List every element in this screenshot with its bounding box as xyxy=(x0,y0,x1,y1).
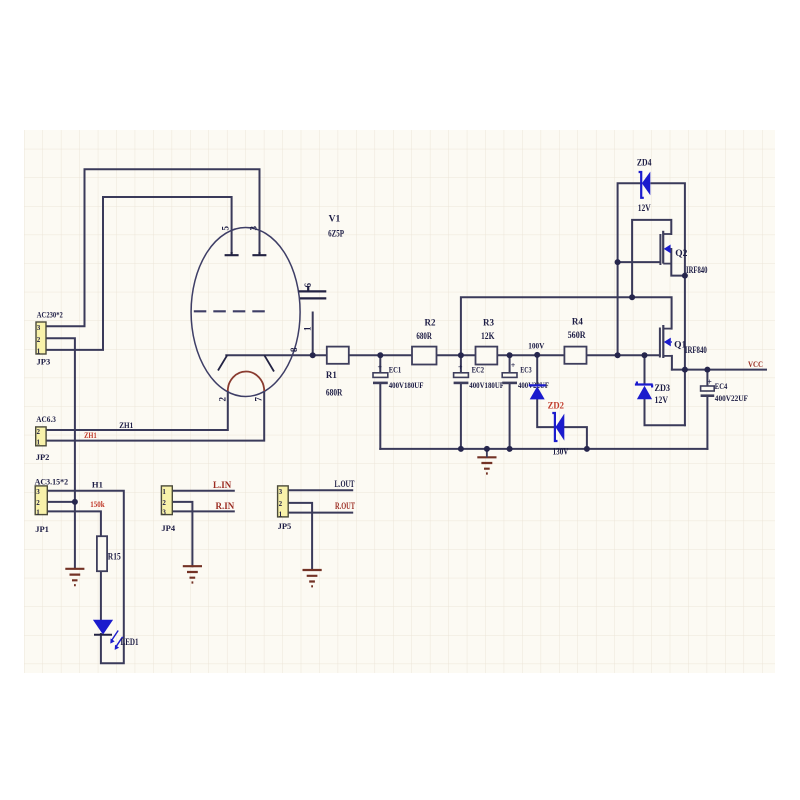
wire JP2 pin2 to tube pin2 (net ZH1) xyxy=(46,392,228,430)
node return rail ZD2 xyxy=(584,446,590,452)
svg-text:ZD3: ZD3 xyxy=(655,383,671,393)
zener ZD2 (horizontal, cathode left) xyxy=(552,413,557,441)
wire JP2 pin1 to tube pin7 (net ZH1) xyxy=(46,392,264,441)
wire JP3 pin3 to tube pin5 (inner loop) xyxy=(46,197,232,350)
wire ZD3 bottom to VCC vertical xyxy=(645,399,685,425)
node VCC / right vertical xyxy=(682,367,688,373)
schematic sheet with grid xyxy=(24,130,775,673)
ground under JP4 xyxy=(183,566,202,582)
wire JP1 pin3 H1 loop to LED cathode return xyxy=(47,491,124,664)
transistor Q1 channel bar xyxy=(662,325,664,358)
tube V1 6Z5P envelope ellipse xyxy=(191,228,300,397)
svg-text:12V: 12V xyxy=(655,395,669,405)
tube cathode heater arc xyxy=(228,371,264,391)
svg-text:1: 1 xyxy=(36,508,40,516)
svg-text:6Z5P: 6Z5P xyxy=(328,229,344,239)
svg-text:12V: 12V xyxy=(638,203,651,213)
svg-text:R3: R3 xyxy=(483,318,494,328)
resistor R1 xyxy=(327,347,349,364)
svg-text:3: 3 xyxy=(248,226,258,231)
wire JP5 pin1 R.OUT xyxy=(288,512,352,514)
node return rail EC3 xyxy=(507,446,513,452)
wire JP3 pin1 to tube pin3 (upper loop) xyxy=(46,169,260,326)
svg-text:EC3: EC3 xyxy=(520,365,532,375)
wire JP1 pin2 to ground stem xyxy=(47,501,75,503)
wire R3 to R4 xyxy=(497,354,564,356)
wire JP4 pin2 to ground xyxy=(172,502,192,566)
wire JP1 pin1 to R15 top xyxy=(47,511,101,536)
svg-text:JP1: JP1 xyxy=(35,524,49,534)
svg-text:3: 3 xyxy=(162,508,166,516)
wire bottom return rail xyxy=(380,448,707,450)
ground under JP3/JP1 chain xyxy=(65,569,84,585)
svg-text:R1: R1 xyxy=(326,370,337,380)
svg-text:+: + xyxy=(378,363,383,372)
svg-text:ZH1: ZH1 xyxy=(119,420,133,430)
svg-text:JP4: JP4 xyxy=(161,523,175,533)
svg-text:+: + xyxy=(458,363,463,372)
transistor Q2 drain stub xyxy=(663,233,671,235)
wire JP4 pin3 R.IN xyxy=(172,510,234,512)
svg-text:VCC: VCC xyxy=(748,359,763,369)
svg-text:1: 1 xyxy=(279,510,283,518)
svg-text:1: 1 xyxy=(37,347,41,355)
wire B+ top rail from R2-R3 node to Q1 drain xyxy=(461,297,672,355)
transistor Q1 IRF840 gate bar xyxy=(659,328,661,358)
svg-text:AC230*2: AC230*2 xyxy=(37,310,63,320)
svg-text:3: 3 xyxy=(279,488,283,496)
svg-text:AC6.3: AC6.3 xyxy=(36,414,56,424)
resistor R4 xyxy=(564,347,586,364)
capacitor EC4 top plate xyxy=(701,386,715,391)
resistor R15 xyxy=(97,536,107,571)
svg-text:2: 2 xyxy=(279,500,283,508)
svg-text:3: 3 xyxy=(37,324,41,332)
LED LED1 triangle xyxy=(93,620,113,635)
resistor R2 xyxy=(412,347,437,365)
wire Q1 source to VCC rail xyxy=(671,356,673,370)
svg-text:5: 5 xyxy=(221,226,231,231)
node EC1 junction xyxy=(377,352,383,358)
svg-text:JP3: JP3 xyxy=(37,356,51,366)
svg-text:L.IN: L.IN xyxy=(213,480,232,490)
node Q2 gate tap xyxy=(615,259,621,265)
wire Q2 source to right vertical xyxy=(671,249,685,276)
svg-text:12K: 12K xyxy=(481,331,495,341)
svg-text:EC1: EC1 xyxy=(389,365,402,375)
svg-text:680R: 680R xyxy=(326,388,343,398)
connector JP3 body xyxy=(36,322,46,354)
wire R1 to R2 xyxy=(349,354,412,356)
wire JP5 pin3 L.OUT xyxy=(288,489,352,491)
wire EC2 riser and drop xyxy=(460,355,462,449)
svg-text:400V22UF: 400V22UF xyxy=(715,393,748,403)
tube heater pin 3 lead and bar xyxy=(252,252,266,255)
svg-text:AC3.15*2: AC3.15*2 xyxy=(35,476,69,486)
wire 100V node down to D2 xyxy=(536,355,538,386)
svg-text:JP2: JP2 xyxy=(36,452,50,462)
svg-text:R2: R2 xyxy=(425,318,436,328)
zener ZD4 (horizontal, cathode left) xyxy=(639,172,644,198)
tube plate legs xyxy=(218,355,274,371)
transistor Q2 arrow xyxy=(664,245,671,254)
wire EC1 riser and drop xyxy=(379,355,381,449)
node JP1 pin2 / ground riser xyxy=(72,499,78,505)
node Q2 source / ZD4 right xyxy=(682,273,688,279)
svg-text:EC2: EC2 xyxy=(472,365,485,375)
svg-text:IRF840: IRF840 xyxy=(685,345,707,355)
wire Q2 drain loop to B+ rail xyxy=(632,220,671,297)
node ZD3 junction xyxy=(642,352,648,358)
wire ZD4/Q2-gate riser from main rail xyxy=(618,183,640,355)
node return rail EC2 xyxy=(458,446,464,452)
capacitor EC1 bottom plate xyxy=(373,382,388,385)
node ZD4 riser junction xyxy=(615,352,621,358)
transistor Q2 source stub xyxy=(663,263,671,265)
svg-text:2: 2 xyxy=(36,499,40,507)
svg-text:ZD4: ZD4 xyxy=(637,157,652,167)
node 100V junction xyxy=(534,352,540,358)
ground on 130V return rail xyxy=(477,457,496,473)
transistor Q1 arrow xyxy=(664,338,671,347)
node R2-R3/B+ junction xyxy=(458,352,464,358)
transistor Q1 source stub xyxy=(663,355,672,357)
wire ZD3 riser xyxy=(644,355,646,384)
wire EC3 riser and drop xyxy=(509,355,511,449)
capacitor EC2 top plate xyxy=(454,373,469,378)
wire R15 bottom to LED anode xyxy=(100,571,102,620)
wire JP5 pin2 to ground xyxy=(288,503,312,570)
svg-text:400V180UF: 400V180UF xyxy=(389,380,424,390)
wire R4 to Q1 gate xyxy=(587,354,660,356)
svg-text:8: 8 xyxy=(289,347,299,352)
svg-text:130V: 130V xyxy=(553,447,569,457)
LED LED1 emission arrows xyxy=(111,631,122,648)
connector JP5 body xyxy=(278,486,289,517)
svg-text:R.IN: R.IN xyxy=(216,501,235,511)
svg-text:2: 2 xyxy=(162,499,166,507)
capacitor EC2 bottom plate xyxy=(454,382,469,385)
svg-text:ZD2: ZD2 xyxy=(548,401,565,411)
svg-text:1: 1 xyxy=(162,488,166,496)
svg-text:680R: 680R xyxy=(416,331,432,341)
svg-text:400V180UF: 400V180UF xyxy=(469,380,504,390)
wire tube pin1 drop xyxy=(312,313,314,355)
node return rail ground xyxy=(484,446,490,452)
svg-text:IRF840: IRF840 xyxy=(686,265,708,275)
connector JP2 body xyxy=(36,427,46,446)
wire VCC output rail xyxy=(672,369,766,371)
wire R2 to R3 xyxy=(437,354,476,356)
svg-text:V1: V1 xyxy=(329,215,341,225)
tube heater pin 5 lead and bar xyxy=(225,252,239,255)
svg-text:2: 2 xyxy=(37,336,41,344)
wire tube plate to R1 (main rail segment) xyxy=(226,354,326,356)
resistor R3 xyxy=(476,347,498,365)
svg-text:R.OUT: R.OUT xyxy=(335,501,355,511)
svg-text:R4: R4 xyxy=(572,317,583,327)
connector JP4 body xyxy=(161,486,172,515)
wire JP4 pin1 L.IN xyxy=(172,490,234,492)
svg-text:L.OUT: L.OUT xyxy=(335,479,355,489)
ground under JP5 xyxy=(303,570,322,586)
capacitor EC4 bottom plate xyxy=(701,394,715,397)
capacitor EC3 top plate xyxy=(502,373,517,378)
svg-text:EC4: EC4 xyxy=(715,381,728,391)
wire Q2 gate xyxy=(618,261,660,263)
capacitor EC3 bottom plate xyxy=(502,382,517,385)
LED LED1 cathode bar xyxy=(94,634,112,636)
svg-text:2: 2 xyxy=(218,397,228,402)
node tube pin8/pin1 junction xyxy=(310,352,316,358)
svg-text:6: 6 xyxy=(303,283,313,288)
svg-text:ZH1: ZH1 xyxy=(84,431,97,440)
svg-text:7: 7 xyxy=(254,397,264,402)
node VCC / EC4 xyxy=(704,367,710,373)
svg-text:1: 1 xyxy=(37,439,41,447)
tube pin 6 grid-cap bars xyxy=(299,287,327,299)
transistor Q1 drain stub xyxy=(663,328,671,330)
svg-text:+: + xyxy=(707,377,712,386)
transistor Q2 channel bar xyxy=(662,231,664,264)
wire ZD4 right side long vertical to ZD3 bottom xyxy=(652,183,685,425)
svg-text:2: 2 xyxy=(37,428,41,436)
svg-text:LED1: LED1 xyxy=(121,637,139,647)
svg-text:1: 1 xyxy=(303,326,313,331)
svg-text:150k: 150k xyxy=(90,500,105,509)
svg-text:R15: R15 xyxy=(108,551,121,561)
wire EC4 riser and drop xyxy=(706,370,708,449)
wire D2 to ZD2 and down to 130V rail xyxy=(537,399,587,449)
connector JP1 body xyxy=(35,486,47,515)
capacitor EC1 top plate xyxy=(373,373,388,378)
node EC3 junction xyxy=(507,352,513,358)
diode D2 (upper of ZD2 pair, cathode bar up) xyxy=(529,384,546,386)
tube grid (dashed) xyxy=(194,310,271,312)
wire JP3 pin2 down to ground xyxy=(46,338,75,568)
svg-text:H1: H1 xyxy=(92,480,103,490)
svg-text:+: + xyxy=(511,361,516,370)
svg-text:560R: 560R xyxy=(568,330,586,340)
transistor Q2 IRF840 gate bar xyxy=(659,234,661,265)
node B+ rail / Q2 drain loop xyxy=(629,294,635,300)
svg-text:Q2: Q2 xyxy=(675,249,687,259)
zener ZD3 (vertical, cathode bar up) xyxy=(635,382,653,388)
svg-text:3: 3 xyxy=(36,488,40,496)
svg-text:100V: 100V xyxy=(528,340,545,350)
svg-text:JP5: JP5 xyxy=(278,521,292,531)
